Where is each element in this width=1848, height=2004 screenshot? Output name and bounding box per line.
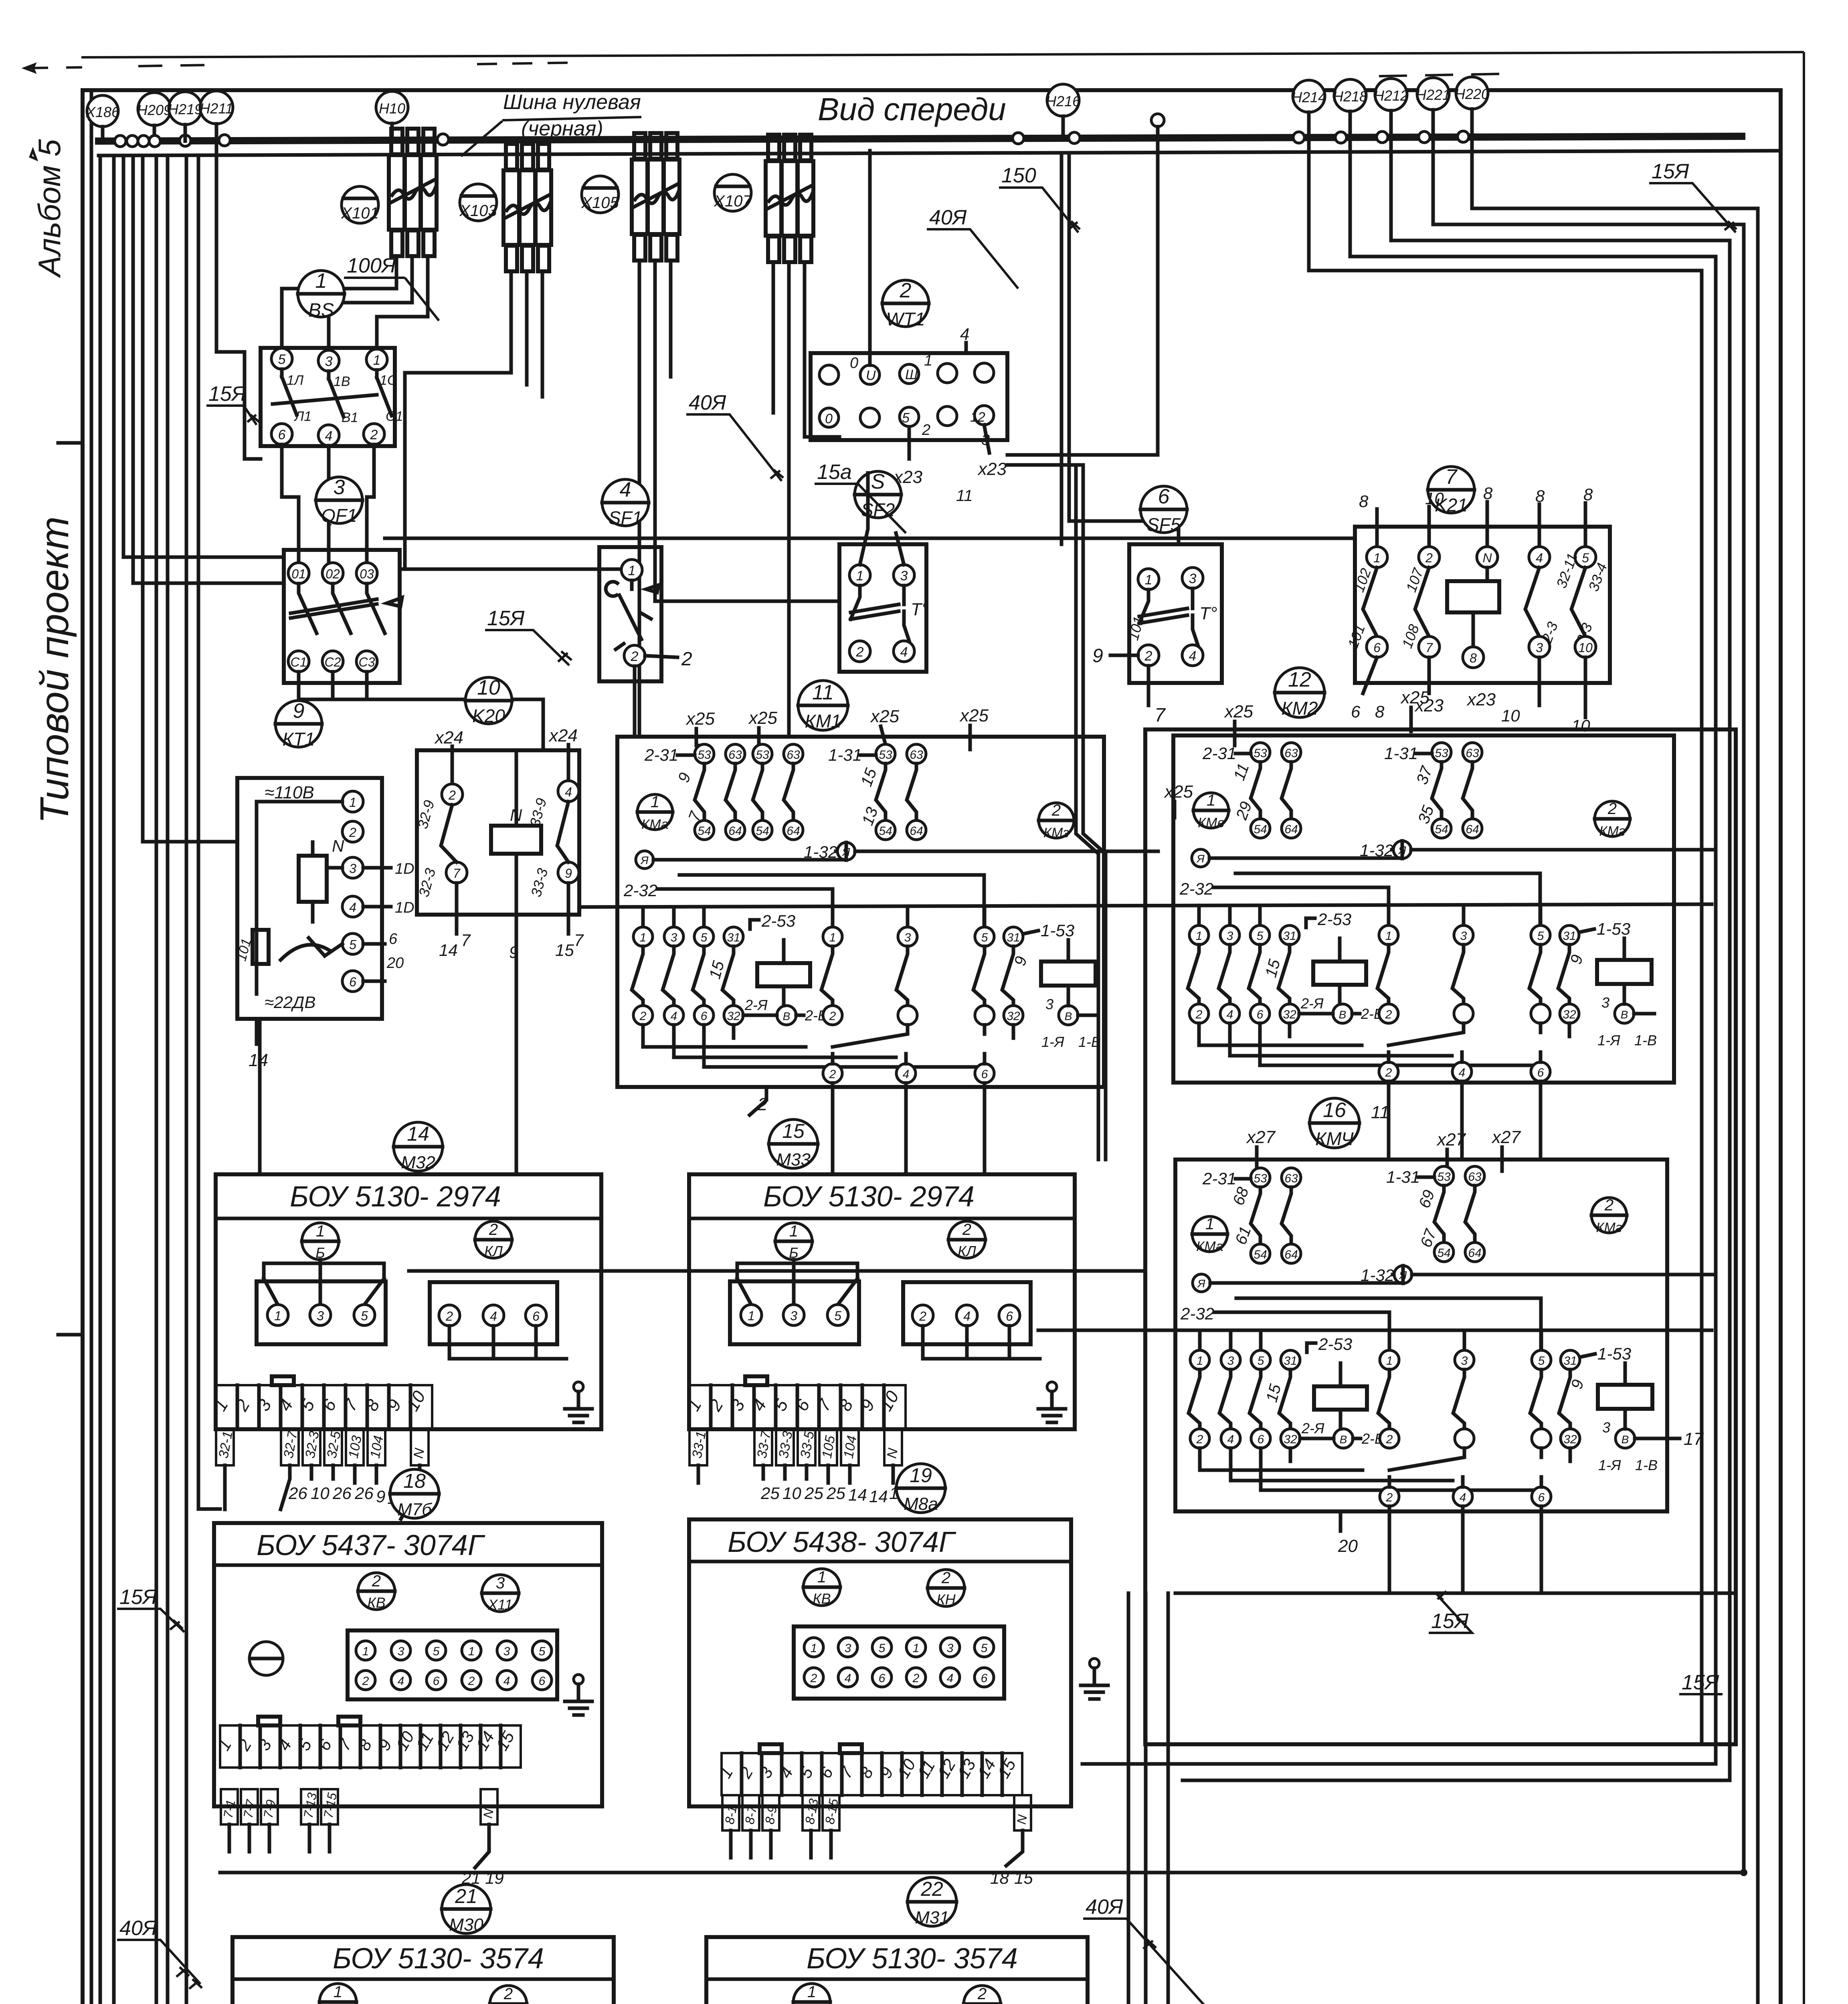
svg-text:15Я: 15Я [1652,160,1689,183]
M8a terminal matrix box [794,1626,1004,1699]
node circle H212 [1374,79,1408,137]
M8a ref 2/KN [928,1569,964,1608]
svg-text:БОУ 5438- 3074Г: БОУ 5438- 3074Г [728,1526,956,1558]
svg-text:2: 2 [448,788,456,802]
svg-text:Вид спереди: Вид спереди [818,91,1006,127]
M8a ref 1/KV [803,1568,840,1607]
svg-text:3: 3 [398,1645,404,1658]
svg-text:40Я: 40Я [689,391,726,414]
SF5 box [1129,544,1222,683]
svg-text:4: 4 [1536,551,1543,565]
svg-text:1: 1 [924,352,932,369]
svg-text:25: 25 [760,1484,780,1503]
svg-text:Шина нулевая: Шина нулевая [503,91,641,114]
M33 tail wires [698,1465,893,1483]
svg-text:03: 03 [360,567,374,581]
svg-text:20: 20 [1338,1536,1358,1556]
label 15Ya KM4 bottom [1429,1591,1472,1633]
wire pair mid b [1083,465,1106,1160]
svg-text:х27: х27 [1246,1127,1276,1147]
svg-text:2: 2 [631,649,639,664]
svg-text:4: 4 [1189,648,1197,664]
svg-text:H214: H214 [1292,89,1326,105]
svg-text:U: U [866,368,876,383]
svg-text:1-31: 1-31 [1384,744,1418,763]
svg-text:2-31: 2-31 [1202,1169,1236,1188]
svg-text:10: 10 [782,1484,801,1503]
svg-text:8: 8 [1483,484,1493,503]
svg-text:6: 6 [433,1675,440,1688]
K21 coil [1447,581,1499,612]
SF5 terminals bottom [1138,645,1203,666]
X101 output wires to BS [282,257,396,348]
svg-text:1: 1 [362,1645,369,1658]
wire from H221 [1433,137,1744,1873]
motor unit M33 ref circle 15/M33 [769,1119,818,1170]
svg-text:Альбом 5: Альбом 5 [32,139,67,278]
SF2 thermal contact [851,586,909,641]
svg-text:2: 2 [922,422,930,438]
M7b minus dial [249,1642,283,1675]
top-left arrowhead [25,65,34,72]
svg-text:7: 7 [574,931,584,949]
SF5 thermal contact [1139,588,1198,645]
svg-text:10: 10 [1578,640,1593,655]
BS output wires to QF1 [282,444,299,563]
svg-text:3: 3 [325,354,333,369]
svg-text:М32: М32 [401,1153,435,1172]
top dash near x1190 [477,63,581,64]
QF1 box [284,550,400,683]
QF1 top terminals [288,563,377,584]
svg-text:1: 1 [1145,572,1152,588]
KM4 aux label 1-31 [1386,1168,1434,1186]
svg-text:Л1: Л1 [294,409,311,424]
node circle H209 [137,93,172,141]
svg-text:КВ: КВ [813,1590,831,1607]
svg-text:15: 15 [782,1120,805,1142]
wire L9 [198,156,220,1509]
svg-text:Типовой проект: Типовой проект [32,516,77,824]
node circle H10 [376,91,408,140]
svg-text:КМ2: КМ2 [1281,698,1318,719]
fuse block X105 [632,133,679,261]
svg-text:40Я: 40Я [929,206,967,229]
svg-text:2: 2 [362,1675,369,1688]
label 40Ya mid [686,391,783,481]
KM1 x25 stubs [696,725,970,749]
K21 top stubs [1377,502,1585,547]
svg-text:10: 10 [311,1484,330,1503]
svg-text:3: 3 [900,568,908,584]
top-right dash [1379,74,1507,76]
KM4 bottom collector [1175,1592,1736,1595]
svg-text:15Я: 15Я [487,607,525,630]
svg-text:х25: х25 [685,709,715,729]
svg-text:КМа: КМа [641,817,669,832]
SF1 box [599,547,661,681]
KM1 sub ref 1/KMa [637,793,673,832]
svg-text:26: 26 [332,1484,352,1503]
svg-text:01: 01 [291,567,306,581]
svg-text:4: 4 [947,1672,954,1685]
M32 ground [565,1382,592,1422]
svg-text:х25: х25 [748,708,777,728]
svg-text:5: 5 [879,1642,886,1655]
fuse label X105 [581,176,619,213]
node circle H214 [1292,80,1326,137]
M33 label boxes under strip [689,1429,902,1465]
contactor KM2 box [1173,735,1674,1083]
K21 top terminals [1367,547,1596,568]
svg-text:1: 1 [628,563,636,578]
svg-text:6: 6 [981,1672,988,1685]
KM2 aux cluster A [1251,743,1301,838]
svg-text:х25: х25 [959,706,989,725]
sheet outer border top [81,52,1804,57]
svg-text:8: 8 [1375,702,1385,721]
M7b strip15 [214,1717,521,1768]
svg-text:N: N [332,836,344,855]
svg-text:М7б: М7б [397,1500,433,1519]
svg-text:K20: K20 [472,705,505,726]
svg-text:4: 4 [565,785,572,799]
svg-text:15Я: 15Я [119,1586,157,1609]
horizontal feeder y1160 [1007,463,1083,467]
svg-text:4: 4 [503,1675,510,1688]
svg-text:14: 14 [869,1487,888,1506]
svg-text:0: 0 [850,355,858,372]
svg-text:6: 6 [1351,702,1361,721]
KM1 aux label 1-31 [828,745,876,764]
wire pair mid a [1076,465,1098,1160]
KM2 x25 left outside [1164,782,1193,818]
svg-text:6: 6 [389,931,398,947]
SF1 switch symbol [606,580,658,639]
label 150 top [999,164,1080,232]
svg-text:6: 6 [1158,485,1170,508]
svg-text:19: 19 [485,1869,504,1887]
svg-text:х25: х25 [1224,702,1253,721]
BS top terminals 5,3,1 [271,348,387,371]
control unit M8a ref circle 19/M8a [896,1464,945,1514]
svg-text:H221: H221 [1416,87,1450,103]
KM1 inner works [623,842,1158,1083]
svg-text:X101: X101 [341,204,378,222]
svg-text:5: 5 [349,937,356,952]
svg-text:18: 18 [990,1869,1009,1887]
svg-text:25: 25 [804,1484,823,1503]
KM4 inner works [1180,1266,1715,1506]
unit M33 BOU box [683,1174,1075,1429]
svg-text:В1: В1 [342,410,358,425]
bus junction dots left cluster [115,135,230,147]
KM4 pin17 lead [1635,1429,1704,1449]
svg-text:H220: H220 [1455,86,1489,102]
svg-text:1: 1 [315,269,327,293]
svg-text:1: 1 [817,1568,826,1586]
svg-text:х27: х27 [1491,1127,1521,1147]
svg-text:5: 5 [902,410,910,426]
svg-text:М30: М30 [449,1915,483,1935]
BS bottom terminals 6,4,2 [271,424,384,446]
junction dot at 4350,4672 [1740,1869,1747,1876]
wire L6 [156,156,233,2004]
svg-text:15Я: 15Я [1682,1671,1719,1694]
wire K20 coil to M32 [515,915,518,1174]
svg-text:H209: H209 [137,102,172,118]
svg-text:2: 2 [370,427,378,442]
WT1 wire from H10 down [868,151,872,365]
KM1 aux label 2-31 [644,745,695,764]
M8a label boxes [722,1795,1031,1830]
switch SF5 ref circle 6/SF5 [1140,485,1187,535]
fuse block X107 [766,135,813,262]
svg-text:17: 17 [1684,1429,1704,1449]
KM4 aux cluster A [1251,1168,1301,1263]
switch SF1 ref circle 4/SF1 [602,478,649,528]
svg-text:1: 1 [811,1642,817,1655]
svg-text:19: 19 [910,1464,932,1487]
SF5 terminals top [1138,568,1203,590]
svg-text:40Я: 40Я [119,1917,157,1940]
wire L8 [186,156,233,2004]
svg-text:7: 7 [1154,705,1166,726]
drop wires to bottom run a [1128,1593,1238,2004]
motor unit M31 ref circle 22/M31 [908,1877,956,1927]
KT1 resistor [253,930,269,964]
svg-text:КМв: КМв [1198,815,1224,830]
svg-text:1D: 1D [395,899,414,916]
KM1 aux cluster B [876,744,926,840]
svg-text:4: 4 [349,900,356,915]
M7b tail wires [229,1824,489,1868]
M8a ground [1081,1659,1108,1699]
svg-text:2: 2 [349,825,356,840]
LEFTBUNDLE [100,124,284,2004]
svg-text:х25: х25 [1164,782,1193,802]
M7b ref 3/X11 [482,1574,519,1613]
svg-text:26: 26 [288,1484,307,1503]
thin line under bus [99,151,1781,156]
KT1 pin labels right [363,868,391,981]
M8a strip15 [716,1744,1022,1795]
contactor KM4 ref circle 16/KM4 [1310,1098,1359,1149]
KM1 sub ref 2/KMz [1039,802,1074,840]
KM4 sub ref 2/KMg [1591,1196,1627,1235]
long wire row KM4 [1038,1329,1712,1332]
svg-text:х24: х24 [434,728,463,747]
svg-text:1Л: 1Л [287,373,304,388]
unit M7b BOU box [214,1523,602,1806]
node circle H221 [1416,78,1450,137]
KM2 aux label 2-31 [1202,744,1251,763]
K20 contact blades [441,802,568,862]
svg-text:2: 2 [1425,551,1433,565]
svg-text:М33: М33 [776,1150,811,1170]
svg-text:H219: H219 [168,101,202,117]
svg-text:5: 5 [278,352,286,367]
svg-text:1В: 1В [334,374,350,389]
svg-text:1С: 1С [380,373,397,388]
K21 bottom terminals [1367,636,1596,668]
svg-text:1: 1 [1207,792,1215,809]
svg-text:14: 14 [439,941,458,960]
K20 box [417,750,579,915]
svg-text:X105: X105 [581,194,619,212]
QF1 trip arrow [387,598,402,606]
svg-text:9: 9 [293,699,305,723]
SF1 terminal 2 [624,645,645,666]
svg-text:КМ1: КМ1 [805,711,841,731]
control unit M7b ref circle 18/M7b [390,1469,439,1519]
svg-text:1: 1 [856,568,864,584]
svg-text:21: 21 [455,1885,477,1907]
unit M31 BOU box [701,1937,1088,2004]
svg-text:10: 10 [1571,716,1590,735]
svg-text:1: 1 [373,353,381,368]
svg-text:18: 18 [403,1470,426,1492]
svg-text:3: 3 [496,1574,505,1592]
BS switch blades [282,369,377,379]
WT1 terminal row 2 [819,406,994,427]
svg-text:H10: H10 [379,100,405,117]
svg-text:(черная): (черная) [521,117,603,140]
drop wires to bottom run b [1146,1593,1583,2004]
K20 coil [491,826,541,854]
svg-text:9: 9 [565,866,572,881]
svg-text:1-31: 1-31 [828,745,862,764]
svg-text:3: 3 [503,1645,510,1658]
wire from H211 down [216,124,261,459]
svg-text:H218: H218 [1333,88,1367,105]
svg-text:2: 2 [1051,802,1061,819]
svg-text:С2: С2 [325,655,341,669]
svg-text:9: 9 [376,1487,385,1506]
svg-text:15: 15 [1014,1869,1033,1887]
svg-text:2-31: 2-31 [1202,744,1236,763]
svg-text:26: 26 [354,1484,374,1503]
node circle H219 [168,92,202,140]
svg-text:2: 2 [1604,1196,1613,1214]
svg-text:3: 3 [349,861,356,876]
svg-text:2: 2 [1144,648,1152,664]
motor unit M32 ref circle 14/M32 [394,1122,443,1172]
KT1 contact arc [281,938,342,960]
svg-text:С1: С1 [386,409,403,424]
svg-text:15: 15 [555,941,574,960]
label 15Ya top right [1649,160,1737,232]
svg-text:14: 14 [407,1123,429,1145]
M7b ground [565,1675,592,1715]
svg-text:≈22ДВ: ≈22ДВ [265,993,315,1012]
svg-text:2: 2 [856,644,864,660]
svg-text:5: 5 [1582,551,1589,565]
svg-text:Ш: Ш [905,367,918,382]
KM2 sub ref 1/KMv [1193,792,1229,830]
svg-text:2: 2 [900,279,912,302]
contactor KM2 ref circle 12/KM2 [1275,668,1324,719]
svg-text:2: 2 [372,1572,381,1590]
svg-text:15Я: 15Я [208,382,246,406]
svg-text:1: 1 [1373,551,1381,565]
QF1 bottom terminals [288,651,377,672]
svg-text:х27: х27 [1436,1130,1466,1149]
wire pair to SF5 b [1069,156,1179,544]
svg-text:11: 11 [1371,1103,1389,1122]
svg-text:КМг: КМг [1599,824,1625,839]
K21 contact blades [1363,568,1585,636]
BLOCKS [206,151,1610,1070]
svg-text:02: 02 [326,567,340,581]
left margin tick 2 [58,1333,83,1337]
svg-text:9: 9 [1092,645,1103,667]
M7b ref 2/KV [358,1572,395,1611]
KT1 pin14 [255,1019,259,1044]
LONGWIRES [110,904,1736,2004]
svg-text:3: 3 [334,476,345,499]
wire KT1 to M32 [258,1019,262,1174]
svg-text:16: 16 [1323,1099,1346,1122]
sheet outer border right [1803,52,1805,2004]
K21 bottom stubs and labels [1363,657,1585,717]
svg-text:4: 4 [845,1672,851,1685]
svg-text:3: 3 [845,1642,851,1655]
svg-text:4: 4 [960,325,969,343]
svg-text:КТ1: КТ1 [283,729,315,749]
svg-text:2: 2 [468,1675,475,1688]
M7b label boxes [220,1789,497,1824]
svg-text:S: S [871,470,885,493]
RIGHTBUNDLE [220,127,1758,2004]
X103 output wires [405,272,511,569]
KT1 terminals column [342,791,363,992]
long wire QF1 to K21 [385,537,1355,540]
svg-text:КМЧ: КМЧ [1315,1128,1354,1149]
svg-text:5: 5 [433,1645,440,1658]
M7b terminal matrix box [348,1630,557,1699]
wire L5 [143,156,237,842]
svg-text:х25: х25 [870,707,899,726]
svg-text:10: 10 [1501,706,1520,725]
svg-text:2: 2 [941,1569,950,1587]
wire from H212 [1183,137,1730,1780]
fuse label X101 [341,186,378,223]
node circle H220 [1455,77,1489,137]
KM1 aux cluster A [695,744,745,840]
svg-text:100Я: 100Я [347,254,396,277]
svg-text:1: 1 [1205,1215,1214,1233]
KM4 sub ref 1/KMa [1192,1215,1227,1254]
svg-text:8: 8 [1359,492,1369,511]
wire from H216 down to WT1 [1007,127,1158,455]
SF2 box [839,544,926,672]
svg-text:Т°: Т° [911,600,928,619]
svg-text:4: 4 [620,478,631,501]
switch BS ref circle 1/BS [298,269,344,321]
svg-text:10: 10 [477,676,500,699]
svg-text:Т°: Т° [1199,604,1217,623]
svg-text:2: 2 [912,1672,920,1685]
long wire row KM1-KM2 [579,904,1712,907]
svg-text:X103: X103 [459,202,497,220]
small left speck arrow [30,150,36,159]
SF5 pin9 lead [1110,654,1138,657]
svg-text:6: 6 [278,427,286,442]
X105 output wires [638,261,641,737]
null bus (black) [99,136,1742,141]
SF2 terminals top [849,565,914,586]
